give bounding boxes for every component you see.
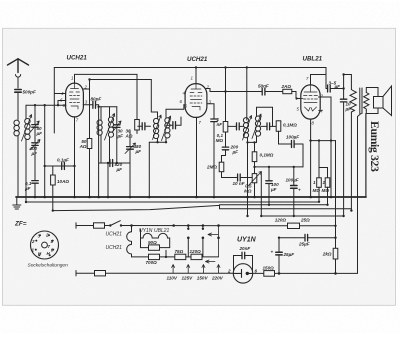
- voltage tap arrows: [172, 265, 220, 274]
- AF node wire: [255, 166, 304, 168]
- output transformer primary: [350, 90, 356, 113]
- resistor 2AOhm: [283, 89, 292, 93]
- tube U1 cathode pin7 lead to bus: [74, 117, 76, 197]
- heater line dots: [109, 224, 111, 226]
- oscillator coil primary: [100, 107, 102, 120]
- socket pin dots: [35, 240, 37, 242]
- rectifier U4 UY1N: [233, 264, 252, 283]
- resistor 50AOhm: [87, 139, 92, 149]
- wire hum cap branch: [335, 141, 337, 238]
- tube U3 pin4 stub: [319, 110, 323, 112]
- IF1 transformer frame wire: [148, 142, 150, 197]
- IF1 primary coil: [151, 80, 157, 119]
- capacitor 500pF: [15, 90, 21, 93]
- tube U3 internals: [304, 85, 318, 111]
- resistor 0.1MOhm AF: [254, 142, 256, 151]
- oscillator section top wire: [99, 106, 117, 108]
- resistor 0.1MOhm (osc anode): [223, 122, 228, 133]
- resistor R 1MOhm right: [327, 168, 329, 178]
- resistor 150 Ohm: [253, 272, 264, 274]
- capacitor osc coupling to IF2: [228, 125, 236, 127]
- wire secondary top to grid line: [25, 105, 27, 119]
- tube U2 pin numbers: [180, 76, 212, 126]
- IF2 bottom wire: [248, 141, 257, 143]
- capacitor 10nF grid coupling: [222, 177, 238, 179]
- cathode node wire: [311, 140, 336, 142]
- capacitor 80pF: [83, 104, 92, 106]
- output transformer secondary: [364, 93, 369, 111]
- osc coil arrow: [105, 114, 115, 141]
- wire secondary bottom to AVC line: [25, 139, 27, 202]
- tube U1 pin2 plate lead: [83, 80, 151, 139]
- IF1 secondary coil: [166, 105, 184, 119]
- wire branch to bus: [44, 166, 46, 197]
- heater chain UY1N UBL21 bumps: [141, 229, 170, 248]
- capacitor 100uF AF bypass: [268, 167, 270, 181]
- rectifier anode dot: [246, 272, 249, 275]
- grid line node row: [26, 104, 66, 106]
- mains switch: [105, 221, 336, 226]
- oscillator coil secondary: [109, 107, 111, 117]
- wire to bus: [34, 183, 36, 197]
- resistor 120/25 Ohm: [288, 223, 300, 228]
- resistor 30AOhm: [136, 74, 138, 119]
- top rail wire: [54, 67, 326, 69]
- capacitor 3-5pF tone: [328, 85, 331, 92]
- osc trimmer 30pF: [116, 107, 118, 125]
- output transformer core: [360, 88, 362, 114]
- labels: [67, 55, 323, 64]
- wire core shield down: [358, 114, 362, 274]
- tube U2 pin2 plate lead: [206, 89, 211, 92]
- tube U3 grid pin lead: [301, 98, 303, 100]
- wire padder branch: [44, 105, 46, 166]
- IF2 primary coil: [243, 118, 248, 123]
- tube U3 pin7 top lead: [311, 68, 327, 89]
- resistor 90 Ohm: [160, 247, 170, 249]
- tube U1 pin1 top lead: [75, 74, 138, 83]
- wire C1 to coil: [17, 92, 19, 119]
- tube U3 pin8 cathode lead: [310, 119, 312, 197]
- wire 0.1M top from rail: [225, 68, 227, 122]
- wire trimmer branch: [34, 105, 36, 141]
- capacitor osc grid coupling: [138, 125, 142, 127]
- mains line top: [76, 223, 94, 228]
- capacitor 1nF at U2 pin3: [207, 104, 214, 119]
- IF2 feed vertical: [246, 68, 248, 121]
- resistor 700 Ohm: [149, 254, 160, 259]
- speaker: [374, 97, 384, 109]
- wire B+ from transformer primary: [350, 112, 352, 209]
- capacitor 200pF: [222, 147, 228, 150]
- resistor 2kOhm: [335, 238, 337, 249]
- tube U3 pin2 lead (screen): [319, 97, 332, 197]
- wire speaker return to bus: [365, 114, 367, 198]
- resistor 75 Ohm: [175, 254, 186, 259]
- wire IF2 to bus: [247, 142, 249, 216]
- tap slider arrow: [206, 260, 216, 263]
- heater drop stubs: [188, 226, 203, 257]
- chassis bus: [16, 196, 366, 198]
- tube U1 pin6 lead: [58, 101, 66, 106]
- IF2 primary core arrow: [243, 116, 252, 141]
- wire screen branch to bus: [98, 107, 100, 197]
- coupling capacitor to U2 grid: [166, 124, 173, 126]
- ground: [16, 197, 18, 205]
- capacitor 100pF: [279, 143, 292, 145]
- heater chain bottom line: [132, 256, 149, 258]
- capacitor 0.1uF left: [32, 181, 38, 184]
- resistor 2MOhm: [219, 162, 224, 172]
- tube U1 pin numbers: [60, 76, 88, 123]
- wire gang to C 0.1uF: [34, 145, 36, 179]
- wire osc to bus: [107, 163, 109, 197]
- socket pin numbers: [31, 233, 54, 256]
- IF1 primary core arrow: [153, 115, 162, 140]
- capacitor 25uF series line: [279, 237, 305, 239]
- antenna coil primary: [14, 120, 19, 125]
- tube U1 pin4 lead: [54, 68, 66, 134]
- AVC line: [26, 201, 319, 203]
- IF1 secondary core arrow: [162, 116, 171, 141]
- tube U1 internals: [70, 83, 80, 109]
- tube U1 UCH21 envelope: [66, 83, 84, 117]
- IF2 secondary coil: [257, 107, 273, 126]
- AF output line: [261, 215, 343, 217]
- plate line with 50nF and 2AOhm: [210, 91, 262, 93]
- IF1 bottom join wire: [149, 141, 166, 143]
- resistor 120 Ohm: [191, 254, 202, 259]
- speaker wiring: [366, 88, 378, 97]
- capacitor 100uF cathode electrolytic: [293, 167, 295, 185]
- tube U2 UCH21 envelope: [185, 84, 207, 118]
- tube U2 pin1 lead to rail: [195, 68, 197, 84]
- wire coil to ground bus: [17, 136, 19, 198]
- wire 1M bias divider stem: [319, 141, 328, 168]
- socket diagram circle: [31, 231, 59, 259]
- antenna coupling hook: [16, 75, 21, 78]
- wire bus end up to speaker: [365, 114, 367, 198]
- electrolytic 25uF vertical: [278, 255, 280, 273]
- resistor R 1MOhm left: [318, 168, 320, 178]
- screen feed line: [220, 204, 328, 206]
- mains line bottom: [76, 271, 95, 276]
- tuning gang capacitor 400pF: [32, 143, 38, 146]
- pot wiper wire: [260, 173, 262, 217]
- mains resistor bottom: [95, 271, 106, 276]
- detector coupling capacitor: [261, 125, 267, 127]
- tube U3 UBL21 envelope: [301, 85, 320, 119]
- IF2 secondary core arrow: [252, 114, 261, 139]
- capacitor 50nF: [262, 88, 265, 95]
- heater chain UCH21 bumps: [127, 226, 132, 257]
- capacitor 0.1uF under tube: [45, 165, 75, 167]
- capacitor 520pF line: [99, 162, 130, 164]
- capacitor 10nF tone to AF: [343, 75, 345, 99]
- capacitor 20nF across rectifier: [234, 256, 253, 271]
- tube U3 pin numbers: [296, 76, 324, 126]
- resistor 10AOhm: [52, 166, 54, 175]
- wire top of output transformer: [344, 75, 352, 90]
- mains fuse resistor top: [94, 223, 105, 228]
- selector arrow: [208, 226, 219, 257]
- resistor 0.1MOhm detector load: [276, 121, 281, 132]
- trimmer capacitor 50pF: [32, 125, 38, 128]
- tube U2 internals: [190, 84, 202, 110]
- bus dots: [34, 196, 37, 199]
- tube U2 pin7 cathode to bus: [196, 117, 198, 197]
- wire 90ohm return: [165, 250, 167, 257]
- wire antenna to C1: [17, 78, 19, 89]
- antenna: [8, 59, 29, 73]
- B+ line: [53, 205, 352, 210]
- coil tuning arrow: [22, 115, 32, 142]
- volume pot 0.5MOhm: [252, 174, 257, 183]
- tuning gang 480pF: [129, 130, 131, 197]
- antenna coil secondary (tuned): [25, 119, 30, 124]
